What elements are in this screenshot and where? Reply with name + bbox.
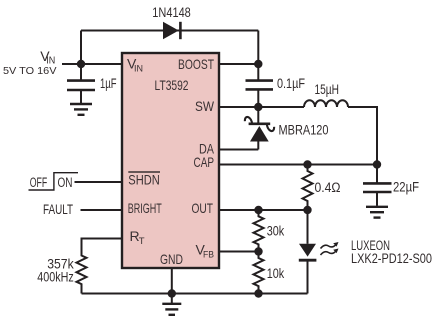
- svg-text:OFF: OFF: [30, 175, 48, 190]
- svg-text:1µF: 1µF: [100, 76, 117, 91]
- svg-text:OUT: OUT: [192, 200, 214, 216]
- svg-text:T: T: [139, 236, 145, 247]
- svg-text:0.4Ω: 0.4Ω: [315, 180, 341, 195]
- svg-text:SW: SW: [195, 98, 215, 114]
- svg-text:LXK2-PD12-S00: LXK2-PD12-S00: [351, 251, 432, 266]
- svg-text:SHDN: SHDN: [128, 172, 160, 188]
- svg-text:MBRA120: MBRA120: [279, 123, 329, 138]
- svg-text:BRIGHT: BRIGHT: [128, 200, 162, 216]
- svg-text:LT3592: LT3592: [155, 77, 189, 93]
- svg-text:ON: ON: [58, 175, 73, 190]
- svg-text:400kHz: 400kHz: [37, 270, 74, 285]
- svg-text:5V TO 16V: 5V TO 16V: [3, 65, 57, 77]
- svg-text:FB: FB: [203, 250, 214, 261]
- svg-text:1N4148: 1N4148: [152, 5, 191, 20]
- svg-text:GND: GND: [160, 251, 183, 267]
- svg-text:CAP: CAP: [194, 154, 215, 170]
- svg-text:22µF: 22µF: [393, 180, 419, 195]
- svg-text:10k: 10k: [267, 266, 285, 281]
- svg-text:15µH: 15µH: [315, 82, 340, 97]
- svg-text:FAULT: FAULT: [43, 202, 73, 217]
- svg-text:BOOST: BOOST: [178, 56, 214, 72]
- svg-text:30k: 30k: [267, 224, 285, 239]
- svg-text:IN: IN: [134, 64, 143, 75]
- svg-text:0.1µF: 0.1µF: [277, 76, 305, 91]
